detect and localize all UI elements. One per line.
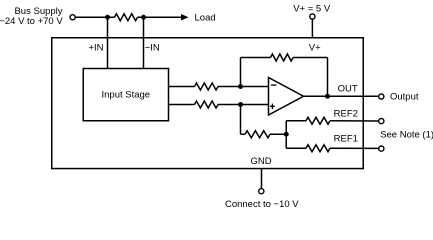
wire: node F down to REF1 branch xyxy=(285,134,287,148)
wire: REF2 resistor to terminal xyxy=(330,120,378,122)
wire: node A down to +IN pin xyxy=(107,17,109,68)
wire: node C up to feedback rail xyxy=(240,58,242,87)
svg-text:REF2: REF2 xyxy=(334,109,358,120)
wire: feedback rail right segment xyxy=(293,57,328,59)
wire: series resistor to node F xyxy=(270,133,286,135)
wire: node B to Load (arrow) xyxy=(144,16,182,18)
resistor: REF1 xyxy=(306,145,330,152)
terminal: Output xyxy=(379,94,384,99)
resistor: feedback xyxy=(271,54,294,61)
terminal: V+ supply xyxy=(310,14,315,19)
resistor: bus shunt (sense) xyxy=(115,14,138,21)
wire: op-amp output to Output terminal xyxy=(304,95,379,97)
wire: REF2 branch left segment xyxy=(286,120,306,122)
IC boundary box xyxy=(52,38,364,169)
wire: shunt resistor to node B xyxy=(138,16,144,18)
terminal: REF1 xyxy=(379,146,384,151)
terminal: REF2 xyxy=(379,119,384,124)
wire: corner to series resistor xyxy=(241,133,246,135)
svg-text:See Note (1): See Note (1) xyxy=(380,129,433,140)
wire: V+ terminal to IC boundary xyxy=(311,20,313,39)
terminal: bus supply input xyxy=(70,15,75,20)
wire: input stage to top gain resistor xyxy=(169,86,195,88)
wire: REF1 resistor to terminal xyxy=(330,147,378,149)
svg-text:Output: Output xyxy=(390,92,419,103)
resistor: bottom gain (noninverting path) xyxy=(195,101,219,108)
resistor: top gain (inverting path) xyxy=(195,83,219,90)
svg-text:V+ = 5 V: V+ = 5 V xyxy=(293,4,331,15)
svg-text:V+: V+ xyxy=(309,43,321,54)
svg-text:−IN: −IN xyxy=(145,43,160,54)
wire: node A to shunt resistor xyxy=(108,16,115,18)
svg-text:−24 V to +70 V: −24 V to +70 V xyxy=(0,16,63,27)
node D (junction at noninverting input) xyxy=(238,102,243,107)
resistor: REF2 xyxy=(306,117,330,124)
svg-text:OUT: OUT xyxy=(338,84,358,95)
node A (junction, +IN tap) xyxy=(105,15,110,20)
block: Input Stage xyxy=(83,69,168,121)
op-amp (output amplifier) xyxy=(269,78,304,116)
wire: top gain resistor to op-amp inverting input xyxy=(218,86,269,88)
wire: GND pin to terminal xyxy=(261,169,263,189)
node B (junction, −IN tap) xyxy=(141,15,146,20)
svg-text:GND: GND xyxy=(250,156,271,167)
svg-text:Connect to −10 V: Connect to −10 V xyxy=(225,199,299,210)
wire: REF1 branch left segment xyxy=(286,147,306,149)
wire: node B down to −IN pin xyxy=(143,17,145,68)
node F (reference junction) xyxy=(284,132,289,137)
svg-text:Input Stage: Input Stage xyxy=(101,90,150,101)
wire: feedback rail down to output node E xyxy=(327,58,329,97)
resistor: reference series xyxy=(245,131,270,138)
node C (junction at inverting input) xyxy=(238,84,243,89)
svg-text:+IN: +IN xyxy=(88,43,103,54)
wire: feedback rail left segment xyxy=(241,57,271,59)
wire: bottom gain resistor to op-amp noninverting input xyxy=(218,104,269,106)
wire: node D down to series resistor xyxy=(240,105,242,135)
wire: node F up to REF2 branch xyxy=(285,121,287,135)
svg-text:REF1: REF1 xyxy=(334,134,358,145)
node E (output junction) xyxy=(325,94,330,99)
terminal: GND (connect to −10 V) xyxy=(259,189,264,194)
wire: bus terminal to node A xyxy=(76,16,108,18)
svg-text:Load: Load xyxy=(195,13,216,24)
wire: input stage to bottom gain resistor xyxy=(169,104,195,106)
